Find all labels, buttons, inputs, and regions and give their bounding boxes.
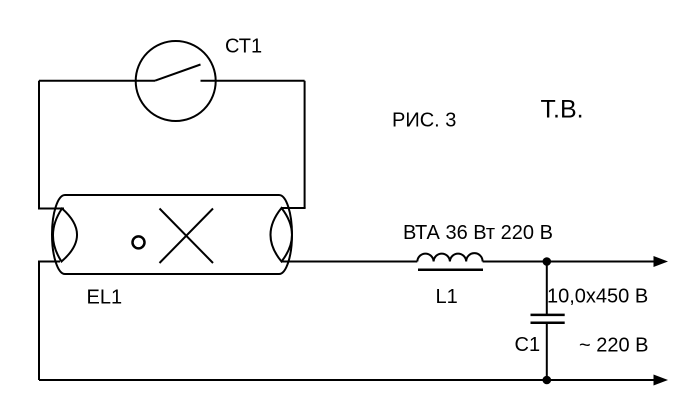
svg-text:ВТА 36 Вт 220 В: ВТА 36 Вт 220 В [403, 222, 553, 244]
svg-text:Т.В.: Т.В. [541, 96, 584, 124]
svg-text:10,0х450 В: 10,0х450 В [547, 286, 648, 308]
svg-text:СТ1: СТ1 [225, 36, 262, 58]
svg-text:EL1: EL1 [87, 287, 123, 309]
svg-text:~ 220 В: ~ 220 В [579, 335, 649, 357]
svg-text:L1: L1 [436, 286, 458, 308]
svg-text:РИС. 3: РИС. 3 [392, 110, 456, 132]
svg-text:С1: С1 [515, 334, 541, 356]
